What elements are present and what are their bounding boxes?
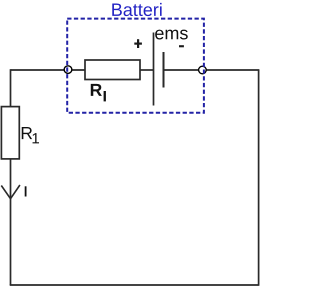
terminal node left: [64, 66, 72, 74]
battery long plate (+): [153, 33, 155, 106]
wire left vertical lower: [10, 159, 12, 285]
wire resistor to battery plate: [140, 69, 154, 71]
wire left vertical upper: [10, 69, 12, 106]
label R1 subscript 1: [33, 133, 39, 143]
label Batteri: [112, 3, 161, 16]
wire top-left horizontal: [11, 69, 69, 71]
label ems: [155, 30, 188, 40]
wire battery to right node: [164, 69, 203, 71]
label I current: [25, 186, 27, 196]
wire right vertical: [258, 70, 260, 286]
resistor RI body (internal resistance): [85, 60, 140, 80]
battery dashed enclosure box: [67, 19, 204, 113]
wire node to internal resistor: [68, 69, 85, 71]
wire top-right horizontal: [203, 69, 260, 71]
resistor R1 body: [1, 107, 19, 159]
label minus: [179, 45, 184, 47]
label R1 letter R: [22, 127, 32, 139]
battery short plate (-): [163, 52, 165, 88]
wire bottom horizontal: [10, 284, 259, 286]
label RI subscript I (bold): [104, 91, 106, 101]
current arrow head: [1, 185, 20, 199]
terminal node right: [199, 66, 207, 74]
label RI letter R (bold): [91, 84, 102, 96]
label plus: [134, 43, 142, 45]
